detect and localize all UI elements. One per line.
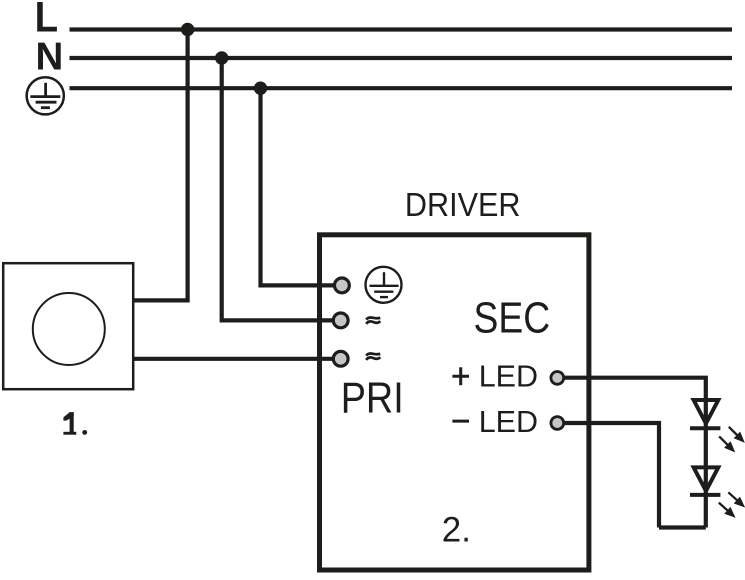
LED D2 bbox=[690, 465, 722, 495]
svg-text:LED: LED bbox=[479, 360, 538, 394]
wire PE bus line bbox=[70, 86, 733, 90]
AC symbol at PRI terminal 2 bbox=[366, 317, 380, 323]
LED D2 emission arrows bbox=[719, 492, 743, 516]
wire -LED return from LED string bbox=[563, 423, 659, 528]
junction node on PE bus bbox=[254, 82, 267, 95]
label + LED bbox=[452, 360, 538, 394]
wire N drop to PRI terminal 2 bbox=[222, 58, 334, 320]
AC symbol at PRI terminal 3 bbox=[366, 353, 380, 359]
terminal SEC -LED bbox=[551, 417, 564, 430]
terminal PRI 2 (AC) bbox=[318, 313, 348, 328]
LED driver box (item 2) bbox=[320, 235, 589, 570]
svg-text:PRI: PRI bbox=[341, 373, 404, 422]
terminal PRI 3 (AC) bbox=[318, 351, 348, 366]
LED D1 bbox=[690, 398, 722, 428]
label - LED bbox=[452, 405, 538, 439]
label 1. bbox=[63, 412, 87, 435]
terminal PRI 1 (earth) bbox=[318, 278, 349, 293]
wire switch output to PRI terminal 3 bbox=[133, 357, 334, 361]
wire +LED output to LED string bbox=[563, 378, 706, 528]
svg-text:SEC: SEC bbox=[473, 293, 550, 342]
protective earth symbol (mains PE) bbox=[27, 77, 64, 114]
svg-text:N: N bbox=[35, 35, 63, 78]
svg-text:LED: LED bbox=[479, 405, 538, 439]
wire N bus line bbox=[70, 56, 733, 60]
svg-text:DRIVER: DRIVER bbox=[405, 186, 521, 223]
switch S1 knob circle bbox=[33, 293, 105, 365]
junction node on L bus bbox=[181, 23, 194, 36]
wire L bus line bbox=[70, 27, 733, 31]
terminal SEC +LED bbox=[551, 372, 564, 385]
wire LED string bottom bbox=[659, 525, 706, 529]
wire L drop to switch bbox=[133, 30, 188, 301]
switch S1 box (item 1) bbox=[3, 263, 133, 389]
wire PE drop to PRI terminal 1 bbox=[261, 88, 335, 285]
LED D1 emission arrows bbox=[719, 427, 743, 451]
protective earth symbol (driver terminal 1) bbox=[366, 267, 402, 303]
junction node on N bus bbox=[215, 51, 228, 64]
svg-text:2.: 2. bbox=[442, 511, 471, 550]
